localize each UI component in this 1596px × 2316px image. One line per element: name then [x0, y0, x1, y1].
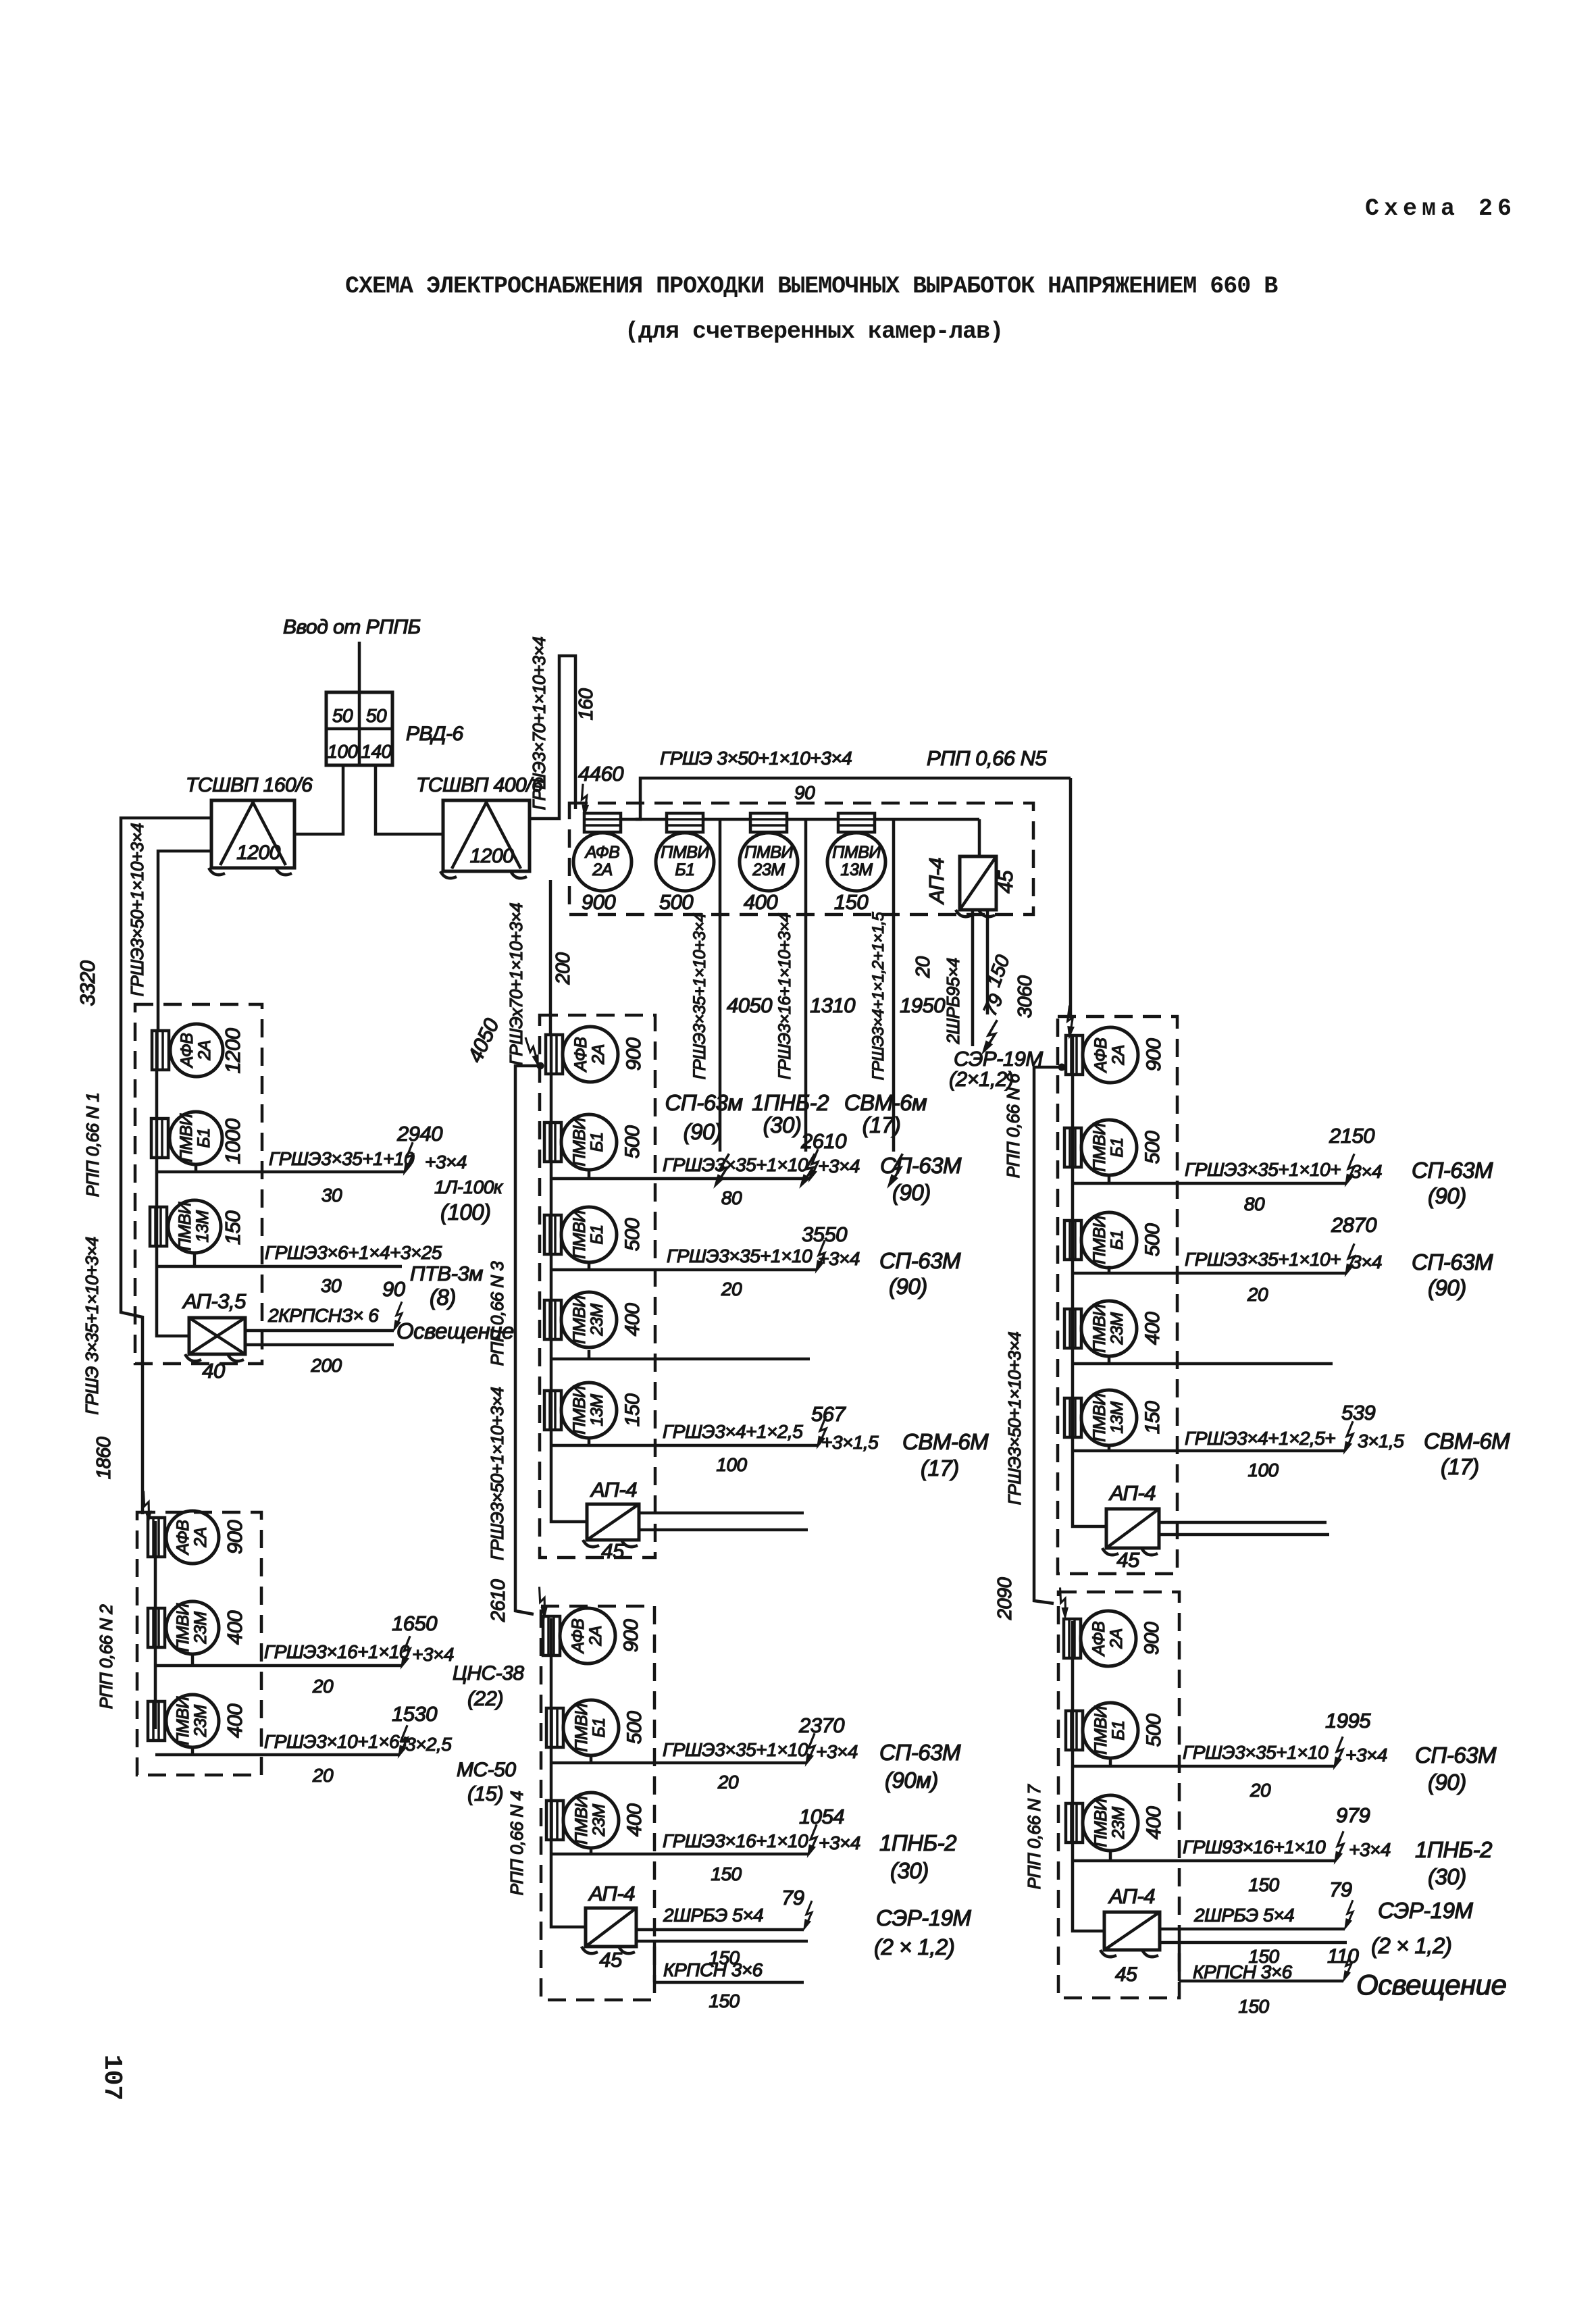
starter ПМВИ-13М (РПП №3) [544, 1383, 617, 1438]
wire: РВД-6 to ТСШВП 160/6 [294, 765, 343, 834]
cable ГРШЭ3х35+1х10 (№4 out1) [663, 1739, 808, 1760]
value 45 (№7) [1115, 1963, 1137, 1986]
label 20 (№6 out2) [1247, 1284, 1268, 1305]
svg-text:500: 500 [623, 1711, 646, 1744]
starter ПМВИ-Б1 (РПП №4) [546, 1700, 619, 1755]
svg-text:АП-3,5: АП-3,5 [182, 1289, 247, 1313]
label 100 (№3 out4) [716, 1454, 747, 1475]
label 80 (№3 out1) [721, 1187, 742, 1208]
svg-text:ГРШЭ3×50+1×10+3×4: ГРШЭ3×50+1×10+3×4 [1004, 1332, 1025, 1506]
load СП-63М (90) (№3 out2) [879, 1248, 961, 1299]
cable ГРШ93х16+1х10 (№7 out2) [1183, 1836, 1326, 1857]
value 400 (№2) [223, 1611, 247, 1645]
svg-text:1200: 1200 [221, 1028, 244, 1073]
label 1310 [810, 994, 855, 1017]
svg-text:(90): (90) [889, 1274, 927, 1299]
svg-text:3×2,5: 3×2,5 [405, 1734, 452, 1755]
transformer ТСШВП 160/6 [209, 800, 294, 875]
svg-text:1ПНБ-2: 1ПНБ-2 [752, 1090, 829, 1115]
dashed enclosure РПП 0,66 №3 [540, 1015, 655, 1558]
wire: РППБ input drop [358, 642, 361, 692]
svg-text:ГРШЭ3×35+1×10+3×4: ГРШЭ3×35+1×10+3×4 [690, 913, 709, 1079]
svg-text:СП-63М: СП-63М [1415, 1743, 1497, 1768]
label 1530 (№2 out2) [392, 1702, 437, 1726]
wire: №1 АП-3,5 output pair [245, 1331, 394, 1345]
svg-text:1000: 1000 [221, 1118, 244, 1164]
value 500 [659, 890, 693, 914]
wire: №6 output 3 (reserve) [1073, 1356, 1333, 1364]
wire: №6 internal bus [1073, 1037, 1106, 1526]
svg-text:80: 80 [1244, 1193, 1265, 1214]
svg-text:150: 150 [1141, 1401, 1164, 1434]
value 900 [582, 890, 615, 914]
svg-text:АП-4: АП-4 [1108, 1481, 1156, 1505]
lightning arrow (СВМ-6м drop) [888, 1152, 902, 1188]
cable ГРШЭ3х35+1+10 (№1 out1) [269, 1148, 415, 1169]
lightning arrow (№4 output 2) [808, 1824, 817, 1856]
wire: №4 output 1 [551, 1755, 806, 1763]
label 3060 (current) [1014, 975, 1036, 1018]
svg-text:РПП 0,66 N 4: РПП 0,66 N 4 [507, 1791, 527, 1896]
svg-text:107: 107 [97, 2055, 126, 2101]
svg-text:20: 20 [312, 1676, 334, 1697]
svg-text:1200: 1200 [236, 842, 281, 864]
svg-text:400: 400 [621, 1303, 644, 1336]
svg-text:20: 20 [1247, 1284, 1268, 1305]
svg-text:СП-63М: СП-63М [879, 1740, 961, 1765]
svg-text:500: 500 [659, 890, 693, 914]
value 400 [744, 890, 777, 914]
load ЦНС-38 (22) [453, 1662, 524, 1710]
wire: №3 output 2 [551, 1262, 816, 1270]
svg-text:СП-63М: СП-63М [1412, 1250, 1493, 1275]
lightning arrow (№3 output 4) [817, 1416, 826, 1447]
svg-text:(90м): (90м) [885, 1768, 938, 1793]
svg-text:ГРШЭ3×35+1×10: ГРШЭ3×35+1×10 [663, 1739, 808, 1760]
dashed enclosure РПП 0,66 №7 [1058, 1592, 1179, 1998]
starter ПМВИ-Б1 first (РПП №6) [1064, 1120, 1137, 1175]
breaker АФВ-2А (РПП №2) [148, 1511, 219, 1564]
cable ГРШЭ3х35+1х10+3х4 (drop) [690, 913, 709, 1079]
svg-text:ЦНС-38: ЦНС-38 [453, 1662, 524, 1684]
svg-text:45: 45 [599, 1948, 623, 1972]
svg-text:100: 100 [716, 1454, 747, 1475]
value 900 (№4) [620, 1619, 642, 1652]
label 150 (№7 out2) [1248, 1874, 1279, 1895]
suffix +3х4 (№1 out1) [425, 1152, 467, 1173]
wire: drop to 1ПНБ-2 [804, 821, 808, 1152]
lightning arrow (СП-63м drop) [715, 1152, 729, 1188]
title line 2 [625, 318, 1003, 345]
dashed enclosure РПП 0,66 №2 [137, 1512, 261, 1775]
value 45 (№3) [601, 1539, 625, 1563]
svg-text:400: 400 [1143, 1806, 1165, 1839]
label 20 (№2 out1) [312, 1676, 334, 1697]
value 500 (№4) [623, 1711, 646, 1744]
svg-text:45: 45 [1116, 1548, 1140, 1572]
label 567 (№3 out4) [811, 1402, 846, 1426]
wire: №3 output 3 (reserve) [551, 1350, 810, 1359]
lightning arrow (№7 output 2) [1335, 1831, 1343, 1863]
value 150 (№6) [1141, 1401, 1164, 1434]
svg-text:КРПСН 3×6: КРПСН 3×6 [1193, 1961, 1293, 1982]
suffix 3х2,5 (№2 out2) [405, 1734, 452, 1755]
svg-text:1995: 1995 [1325, 1709, 1371, 1732]
svg-text:3060: 3060 [1014, 975, 1036, 1018]
wire: №3 АП-4 outputs [639, 1513, 808, 1530]
svg-text:РПП 0,66 N5: РПП 0,66 N5 [927, 746, 1048, 770]
svg-text:1ПНБ-2: 1ПНБ-2 [1415, 1837, 1492, 1862]
svg-text:900: 900 [623, 1037, 645, 1071]
starter ПМВИ-23М (РПП №6) [1064, 1301, 1137, 1356]
svg-text:45: 45 [994, 870, 1017, 894]
dashed enclosure РПП 0,66 №1 [135, 1004, 262, 1364]
wire: riser to РПП №3 [549, 880, 552, 1033]
wire: №3 output 4 [551, 1438, 817, 1445]
svg-text:СП-63м: СП-63м [665, 1090, 742, 1115]
svg-text:2870: 2870 [1331, 1213, 1376, 1237]
wire: №3 to №4 feeder [515, 1066, 540, 1614]
label 79 (№4) [781, 1886, 804, 1909]
svg-text:АП-4: АП-4 [590, 1478, 637, 1501]
value 900 (№6) [1143, 1038, 1165, 1071]
wire: T1 to РПП №1 feeder (inner) [158, 851, 211, 1032]
breaker АФВ-2А (РПП №5) [573, 813, 632, 891]
svg-text:ГРШЭ3×35+1×10: ГРШЭ3×35+1×10 [667, 1245, 813, 1266]
suffix +3х4 (№3 out1) [818, 1156, 860, 1177]
load СЭР-19М (2х1,2) (№4) [874, 1905, 971, 1959]
label АП-4 (№4) [588, 1882, 635, 1905]
value 900 (№3) [623, 1037, 645, 1071]
label АП-3,5 [182, 1289, 247, 1313]
svg-text:ГРШЭ3×35+1+10: ГРШЭ3×35+1+10 [269, 1148, 415, 1169]
svg-text:500: 500 [1143, 1714, 1165, 1747]
feed-through АП-4 (РПП №7) [1100, 1912, 1160, 1957]
svg-text:150: 150 [709, 1990, 740, 2011]
lightning arrow (1ПНБ-2 drop) [800, 1152, 815, 1188]
wire: №1 output 2 [157, 1254, 402, 1266]
svg-text:(2 × 1,2): (2 × 1,2) [874, 1934, 954, 1959]
svg-text:ГРШЭ3×16+1×10+3×4: ГРШЭ3×16+1×10+3×4 [775, 913, 794, 1079]
svg-text:+3×4: +3×4 [819, 1832, 860, 1853]
svg-text:900: 900 [582, 890, 615, 914]
svg-text:1310: 1310 [810, 994, 855, 1017]
svg-text:40: 40 [202, 1359, 225, 1383]
wire: №3 output 1 [551, 1170, 809, 1179]
svg-text:Освещение: Освещение [396, 1318, 514, 1343]
label ГРШЭ3х50+1х10+3х4 (feeder №6-№7) [1004, 1332, 1025, 1506]
svg-text:Освещение: Освещение [1356, 1969, 1506, 2001]
svg-text:СЭР-19М: СЭР-19М [1378, 1898, 1473, 1923]
svg-text:45: 45 [601, 1539, 625, 1563]
starter ПМВИ-23М first (РПП №2) [148, 1601, 219, 1654]
starter ПМВИ-13М (РПП №5) [827, 813, 885, 891]
starter ПМВИ-Б1 first (РПП №3) [544, 1114, 617, 1170]
lightning arrow (№6 output 2) [1345, 1243, 1354, 1275]
junction box РВД-6 [326, 692, 392, 765]
feed-through АП-4 (РПП №5) [956, 856, 996, 917]
wire: drop to СП-63м [719, 821, 722, 1152]
svg-text:500: 500 [621, 1218, 644, 1251]
cable ГРШЭ3х6+1х4+3х25 (№1 out2) [265, 1242, 442, 1263]
wire: №6 АП-4 outputs [1159, 1522, 1329, 1535]
svg-text:ТСШВП 400/6: ТСШВП 400/6 [416, 774, 543, 796]
svg-text:(90): (90) [684, 1119, 722, 1144]
svg-text:АП-4: АП-4 [925, 858, 948, 905]
svg-text:ГРШЭ3×4+1×2,5: ГРШЭ3×4+1×2,5 [663, 1421, 803, 1442]
svg-text:ГРШЭ3×6+1×4+3×25: ГРШЭ3×6+1×4+3×25 [265, 1242, 442, 1263]
svg-text:400: 400 [223, 1704, 247, 1738]
breaker АФВ-2А (РПП №7) [1064, 1611, 1136, 1666]
label 1995 (№7 out1) [1325, 1709, 1371, 1732]
svg-text:1530: 1530 [392, 1702, 437, 1726]
label АП-4 (№3) [590, 1478, 637, 1501]
load СП-63М (90) (№3 out1) [880, 1153, 962, 1205]
svg-text:100: 100 [1247, 1460, 1279, 1481]
svg-text:РПП 0,66 N 3: РПП 0,66 N 3 [487, 1261, 507, 1366]
cable ГРШЭ3х35+1х10 (№3 out1) [663, 1154, 808, 1175]
label ТСШВП 400/6 [416, 774, 543, 796]
svg-text:80: 80 [721, 1187, 742, 1208]
svg-text:79: 79 [1329, 1878, 1352, 1901]
label ГРШЭх70+1х10+3х4 (riser to №3) [506, 903, 526, 1065]
svg-text:(30): (30) [763, 1112, 802, 1137]
wire: №5 top bus [621, 778, 1071, 819]
svg-text:АП-4: АП-4 [588, 1882, 635, 1905]
svg-text:1950: 1950 [900, 994, 945, 1017]
wire: №4 output 2 [551, 1848, 808, 1854]
svg-text:50: 50 [366, 705, 387, 726]
svg-text:ГРШЭ3×50+1×10+3×4: ГРШЭ3×50+1×10+3×4 [487, 1387, 507, 1561]
transformer ТСШВП 400/6 [440, 800, 530, 878]
svg-text:2ШРБ95×4: 2ШРБ95×4 [943, 958, 963, 1044]
wire: T2 output riser (up shaft) [530, 656, 575, 819]
load 1ПНБ-2 (30) [752, 1090, 829, 1137]
svg-text:1650: 1650 [392, 1612, 437, 1635]
label 1860 (current) [93, 1437, 115, 1479]
load СЭР-19М (2х1,2) [949, 1047, 1043, 1091]
wire: №3 internal bus [551, 1035, 587, 1522]
label 200 [552, 952, 574, 985]
svg-text:150: 150 [834, 890, 868, 914]
svg-text:РПП 0,66 N 6: РПП 0,66 N 6 [1003, 1073, 1023, 1179]
cable 2ШРБЭ 5х4 (№4) [663, 1905, 763, 1926]
lightning arrow (№2 output 2) [398, 1725, 407, 1757]
lightning arrow (СЭР-19М drop) [983, 1019, 997, 1054]
svg-text:+3×4: +3×4 [818, 1156, 860, 1177]
lightning arrow (№2 output 1) [401, 1636, 410, 1668]
label 4050 (feeder current) [463, 1015, 503, 1066]
label 90 (№5 bus length) [794, 782, 815, 803]
svg-text:СЭР-19М: СЭР-19М [876, 1905, 971, 1930]
value 500 (№3 second) [621, 1218, 644, 1251]
wire: T1 to РПП №2 feeder (outer) [121, 818, 211, 1514]
svg-text:СП-63М: СП-63М [879, 1248, 961, 1273]
svg-text:СП-63М: СП-63М [880, 1153, 962, 1178]
load 1Л-100к (100) [434, 1177, 504, 1225]
svg-text:(2 × 1,2): (2 × 1,2) [1371, 1933, 1451, 1958]
wire: drop to СВМ-6м [892, 821, 896, 1152]
cable ГРШЭ3х16+1х10+3х4 (drop) [775, 913, 794, 1079]
wire: №7 internal bus [1073, 1621, 1104, 1931]
cable ГРШЭ3х16+1х10 (№4 out2) [663, 1830, 808, 1851]
svg-text:2150: 2150 [1329, 1124, 1374, 1148]
lightning arrow 1860 into РПП №2 [136, 1491, 156, 1522]
wire: №1 output 1 [157, 1164, 404, 1172]
label 2370 (№4 out1) [798, 1714, 844, 1737]
label 2870 (№6 out2) [1331, 1213, 1376, 1237]
value 150 [834, 890, 868, 914]
svg-text:2КРПСНЗ× 6: 2КРПСНЗ× 6 [267, 1305, 379, 1326]
label 30 (№1 out2) [321, 1275, 342, 1296]
wire: РВД-6 to ТСШВП 400/6 [376, 765, 443, 834]
value 900 (№2) [223, 1520, 247, 1554]
svg-text:РПП 0,66 N 2: РПП 0,66 N 2 [96, 1604, 116, 1709]
svg-text:1054: 1054 [799, 1805, 844, 1828]
load МС-50 (15) [457, 1759, 516, 1805]
label 79 (№7) [1329, 1878, 1352, 1901]
svg-text:400: 400 [1141, 1312, 1164, 1345]
svg-text:ГРШЭ3×4+1×1,2+1×1,5: ГРШЭ3×4+1×1,2+1×1,5 [869, 912, 887, 1081]
wire: №1 internal bus [157, 1032, 189, 1336]
svg-text:СВМ-6м: СВМ-6м [844, 1090, 927, 1115]
svg-text:ГРШЭ3×50+1×10+3×4: ГРШЭ3×50+1×10+3×4 [127, 823, 147, 997]
wire: №6 output 4 [1073, 1445, 1344, 1451]
lightning arrow 2610 into АФВ РПП №4 [532, 1587, 552, 1618]
svg-text:20: 20 [312, 1765, 334, 1786]
svg-text:(30): (30) [890, 1858, 929, 1883]
label 3550 (№3 out2) [802, 1223, 847, 1246]
wire: №4 АП-4 output pair [636, 1930, 808, 1941]
svg-text:2ШРБЭ 5×4: 2ШРБЭ 5×4 [1193, 1905, 1294, 1926]
value 400 (№6) [1141, 1312, 1164, 1345]
value 40 (№1) [202, 1359, 225, 1383]
svg-text:РПП 0,66 N 7: РПП 0,66 N 7 [1024, 1784, 1044, 1890]
svg-text:Ввод от РППБ: Ввод от РППБ [283, 616, 421, 638]
svg-text:4460: 4460 [578, 762, 623, 786]
lightning arrow (№6 output 4) [1344, 1421, 1353, 1453]
svg-text:50: 50 [332, 705, 353, 726]
wire: №2 output 1 [155, 1654, 401, 1666]
dashed enclosure РПП 0,66 №5 [569, 803, 1033, 915]
svg-text:(для счетверенных камер-лав): (для счетверенных камер-лав) [625, 318, 1003, 345]
cable КРПСН 3х6 (№4) [663, 1959, 763, 1980]
label АП-4 (№7) [1108, 1884, 1155, 1908]
svg-text:2610: 2610 [800, 1129, 846, 1153]
cable 2КРПСНЗх6 [267, 1305, 379, 1326]
label 2090 (feeder current) [994, 1577, 1016, 1620]
svg-text:500: 500 [1141, 1223, 1164, 1256]
svg-text:2370: 2370 [798, 1714, 844, 1737]
cable ГРШЭ3х35+1х10 (№7 out1) [1183, 1742, 1329, 1763]
svg-text:ГРШЭ3×4+1×2,5+: ГРШЭ3×4+1×2,5+ [1185, 1428, 1335, 1449]
svg-text:МС-50: МС-50 [457, 1759, 516, 1781]
label 20 (drop length) [912, 956, 934, 979]
lightning arrow (№7 output 1) [1334, 1736, 1343, 1768]
suffix 3х4 (№6 out2) [1351, 1252, 1382, 1272]
label 150 (№4 АП) [709, 1947, 740, 1968]
value 900 (№7) [1141, 1622, 1163, 1655]
lightning arrow 2090 into АФВ РПП №7 [1052, 1587, 1073, 1618]
wire: №4 internal bus [551, 1618, 586, 1927]
label ГРШЭ 3х50+1х10+3х4 (№5 bus cable) [660, 748, 852, 769]
label 90 (№1) [382, 1277, 405, 1301]
cable 2ШРБЭ 5х4 (№7) [1193, 1905, 1294, 1926]
starter ПМВИ-Б1 (РПП №5) [656, 813, 714, 891]
label 150 (№7 АП) [1248, 1946, 1279, 1967]
load ПТВ-3м (8) [410, 1262, 483, 1310]
label 539 (№6 out4) [1341, 1401, 1375, 1424]
svg-text:(17): (17) [1441, 1454, 1479, 1479]
suffix +3х4 (№7 out1) [1345, 1745, 1387, 1766]
label РПП 0,66 №1 [82, 1093, 103, 1198]
label 150 (№5 АП drop) [983, 952, 1014, 989]
value 1200 (№1) [221, 1028, 244, 1073]
label 150 (№4 out2) [711, 1863, 742, 1884]
svg-text:ГРШЭ3×35+1×10: ГРШЭ3×35+1×10 [1183, 1742, 1329, 1763]
lightning arrow 4460 into АФВ РПП №5 [575, 784, 592, 816]
load СП-63М (90м) [879, 1740, 961, 1793]
label РПП 0,66 №7 [1024, 1784, 1044, 1890]
starter ПМВИ-13М (РПП №6) [1064, 1390, 1137, 1445]
suffix +3х4 (№4 out1) [816, 1741, 858, 1762]
label 3320 (current) [76, 960, 99, 1006]
svg-text:ГРШЭх70+1×10+3×4: ГРШЭх70+1×10+3×4 [506, 903, 526, 1065]
load СВМ-6М (17) (№6 out4) [1424, 1429, 1510, 1479]
load СП-63м (90) [665, 1090, 742, 1144]
svg-text:ГРШЭ3×35+1×10+: ГРШЭ3×35+1×10+ [1185, 1159, 1341, 1180]
load Освещение (№7) [1356, 1969, 1506, 2001]
svg-text:20: 20 [1250, 1780, 1271, 1801]
svg-text:1200: 1200 [470, 845, 515, 867]
node: №6 to №7 feeder tap [1058, 1064, 1066, 1071]
svg-text:3×4: 3×4 [1351, 1252, 1382, 1272]
suffix +3х1,5 (№3 out4) [821, 1432, 879, 1453]
suffix +3х4 (№7 out2) [1349, 1839, 1391, 1860]
starter ПМВИ-23М (РПП №4) [546, 1793, 619, 1848]
load 1ПНБ-2 (30) (№7) [1415, 1837, 1492, 1889]
wire: АП-4 №5 drop pair [973, 910, 987, 1046]
label 150 (№7 КРПСН) [1238, 1996, 1269, 2017]
label 2610 (№3 out1) [800, 1129, 846, 1153]
svg-text:3550: 3550 [802, 1223, 847, 1246]
svg-text:ГРШ93×16+1×10: ГРШ93×16+1×10 [1183, 1836, 1326, 1857]
svg-text:Схема 26: Схема 26 [1365, 195, 1516, 222]
label 20 (№2 out2) [312, 1765, 334, 1786]
page number 107 (rotated) [97, 2055, 126, 2101]
svg-text:150: 150 [711, 1863, 742, 1884]
label 110 (№7 КРПСН) [1327, 1945, 1359, 1967]
cable ГРШЭ3х4+1х2,5+ (№6 out4) [1185, 1428, 1335, 1449]
lightning arrow (№3 output 2) [816, 1240, 825, 1272]
svg-text:1Л-100к: 1Л-100к [434, 1177, 504, 1198]
feed-through АП-3,5 (РПП №1) [185, 1318, 245, 1361]
load Освещение (№1) [396, 1318, 514, 1343]
label РПП 0,66 №5 [927, 746, 1048, 770]
svg-text:АП-4: АП-4 [1108, 1884, 1155, 1908]
svg-text:ГРШЭ3×70+1×10+3×4: ГРШЭ3×70+1×10+3×4 [529, 637, 549, 810]
label 100 (№6 out4) [1247, 1460, 1279, 1481]
label 1054 (№4 out2) [799, 1805, 844, 1828]
starter ПМВИ-13М (РПП №1) [150, 1200, 221, 1253]
label 1650 (№2 out1) [392, 1612, 437, 1635]
breaker АФВ-2А (РПП №6) [1066, 1027, 1138, 1083]
cable ГРШЭ3х35+1х10 (№3 out2) [667, 1245, 813, 1266]
suffix +3х4 (№4 out2) [819, 1832, 860, 1853]
svg-text:+3×1,5: +3×1,5 [821, 1432, 879, 1453]
lightning arrow (№7 КРПСН) [1343, 1952, 1352, 1981]
label 30 (№1 out1) [321, 1185, 342, 1206]
